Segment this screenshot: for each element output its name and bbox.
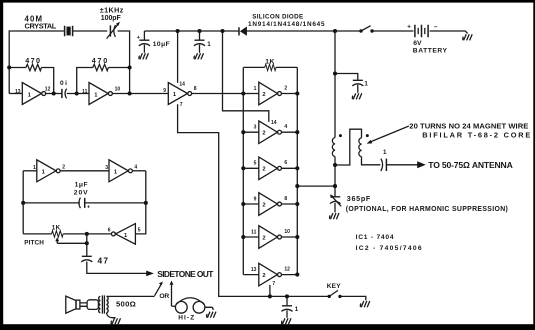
svg-text:9: 9 — [254, 196, 257, 202]
svg-text:1: 1 — [42, 170, 46, 176]
svg-text:0i: 0i — [60, 80, 67, 87]
svg-text:7: 7 — [272, 281, 275, 287]
svg-text:1: 1 — [173, 92, 177, 98]
svg-text:470: 470 — [92, 56, 108, 65]
svg-text:TO 50-75Ω ANTENNA: TO 50-75Ω ANTENNA — [428, 160, 513, 170]
svg-text:IC1 - 7404: IC1 - 7404 — [356, 234, 394, 241]
svg-text:1: 1 — [124, 233, 128, 239]
svg-text:±1KHz: ±1KHz — [100, 5, 124, 14]
svg-text:470: 470 — [25, 56, 40, 65]
svg-text:1: 1 — [364, 80, 368, 87]
svg-text:10: 10 — [284, 229, 290, 235]
svg-text:100pF: 100pF — [101, 15, 122, 22]
svg-text:20V: 20V — [74, 190, 88, 197]
svg-text:–: – — [434, 23, 438, 30]
svg-text:365pF: 365pF — [347, 194, 371, 203]
svg-text:1: 1 — [254, 86, 257, 92]
svg-text:BATTERY: BATTERY — [413, 47, 448, 54]
svg-text:2: 2 — [262, 202, 265, 208]
svg-text:14: 14 — [271, 120, 277, 126]
svg-text:6: 6 — [108, 228, 111, 234]
svg-text:12: 12 — [284, 267, 290, 273]
svg-text:6: 6 — [284, 160, 287, 166]
svg-text:2: 2 — [262, 235, 265, 241]
svg-text:2: 2 — [284, 85, 287, 91]
svg-text:11: 11 — [251, 229, 257, 235]
svg-text:4: 4 — [284, 124, 287, 130]
svg-text:(OPTIONAL, FOR HARMONIC SUPPRE: (OPTIONAL, FOR HARMONIC SUPPRESSION) — [346, 206, 508, 213]
svg-text:5: 5 — [138, 228, 141, 234]
svg-text:1: 1 — [295, 306, 299, 313]
svg-text:+: + — [407, 23, 411, 30]
svg-text:PITCH: PITCH — [24, 239, 44, 246]
svg-text:6V: 6V — [413, 40, 422, 47]
svg-text:14: 14 — [179, 82, 185, 88]
svg-text:10: 10 — [115, 87, 121, 93]
svg-text:12: 12 — [45, 87, 51, 93]
svg-text:1: 1 — [94, 92, 98, 98]
svg-text:10μF: 10μF — [153, 41, 170, 48]
svg-text:HI-Z: HI-Z — [178, 315, 194, 322]
svg-text:1μF: 1μF — [75, 182, 88, 189]
svg-text:47: 47 — [98, 256, 109, 266]
svg-text:500Ω: 500Ω — [116, 300, 136, 309]
svg-text:5: 5 — [254, 161, 257, 167]
svg-text:1K: 1K — [52, 225, 61, 232]
svg-text:20 TURNS NO 24 MAGNET WIRE: 20 TURNS NO 24 MAGNET WIRE — [409, 122, 528, 131]
svg-text:BIFILAR T-68-2 CORE: BIFILAR T-68-2 CORE — [422, 130, 530, 139]
svg-text:SILICON DIODE: SILICON DIODE — [252, 14, 303, 21]
svg-text:KEY: KEY — [327, 283, 341, 290]
svg-text:2: 2 — [262, 92, 265, 98]
svg-text:2: 2 — [262, 131, 265, 137]
svg-text:1N914/1N4148/1N645: 1N914/1N4148/1N645 — [248, 21, 325, 28]
svg-text:OR: OR — [159, 293, 169, 300]
svg-text:+: + — [87, 205, 90, 211]
svg-text:3: 3 — [254, 125, 257, 131]
svg-text:IC2 - 7405/7406: IC2 - 7405/7406 — [356, 245, 422, 252]
svg-text:2: 2 — [262, 273, 265, 279]
svg-text:2: 2 — [262, 167, 265, 173]
svg-text:9: 9 — [163, 88, 166, 94]
svg-text:8: 8 — [284, 196, 287, 202]
svg-text:1: 1 — [114, 170, 118, 176]
svg-text:CRYSTAL: CRYSTAL — [25, 21, 57, 30]
svg-text:1: 1 — [207, 41, 211, 48]
svg-text:13: 13 — [251, 267, 257, 273]
svg-text:8: 8 — [194, 86, 197, 92]
svg-text:3: 3 — [105, 165, 108, 171]
svg-text:1: 1 — [28, 92, 32, 98]
svg-text:4: 4 — [134, 165, 137, 171]
svg-text:2: 2 — [62, 165, 65, 171]
svg-text:13: 13 — [15, 89, 21, 95]
svg-text:1: 1 — [33, 165, 36, 171]
svg-text:11: 11 — [82, 89, 88, 95]
svg-text:1: 1 — [383, 149, 387, 156]
svg-text:1K: 1K — [265, 58, 274, 65]
svg-text:SIDETONE OUT: SIDETONE OUT — [157, 269, 214, 279]
svg-text:7: 7 — [180, 102, 183, 108]
